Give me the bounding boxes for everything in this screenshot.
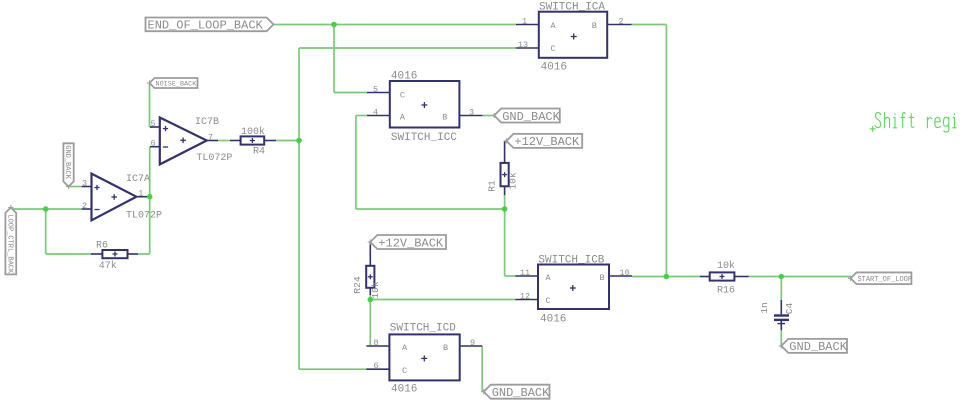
svg-text:B: B [592, 21, 597, 31]
svg-text:4016: 4016 [391, 384, 417, 396]
svg-text:1n: 1n [759, 302, 770, 313]
svg-text:A: A [402, 343, 408, 353]
svg-text:LOOP_CTRL_BACK: LOOP_CTRL_BACK [5, 214, 13, 274]
svg-text:9: 9 [470, 338, 475, 348]
svg-text:+12V_BACK: +12V_BACK [514, 135, 580, 149]
svg-text:C: C [402, 366, 407, 376]
svg-text:SWITCH_ICB: SWITCH_ICB [538, 255, 604, 267]
svg-text:4016: 4016 [541, 62, 567, 74]
svg-text:3: 3 [82, 178, 87, 188]
svg-text:10: 10 [619, 268, 629, 278]
svg-text:4016: 4016 [540, 314, 566, 326]
svg-text:4: 4 [373, 107, 378, 117]
svg-text:C: C [551, 44, 556, 54]
svg-text:R6: R6 [96, 241, 108, 252]
svg-text:TL072P: TL072P [126, 211, 162, 222]
svg-text:B: B [442, 113, 447, 123]
svg-text:B: B [443, 343, 448, 353]
svg-text:IC7B: IC7B [195, 117, 219, 128]
svg-text:10k: 10k [717, 260, 735, 272]
svg-text:C: C [400, 91, 405, 101]
svg-text:4016: 4016 [391, 70, 417, 82]
svg-text:SWITCH_ICC: SWITCH_ICC [391, 132, 457, 144]
svg-text:C: C [546, 296, 551, 306]
svg-text:+12V_BACK: +12V_BACK [378, 236, 444, 250]
svg-text:10k: 10k [370, 281, 381, 298]
svg-text:8: 8 [373, 338, 378, 348]
svg-text:TL072P: TL072P [196, 153, 232, 164]
svg-text:11: 11 [520, 268, 530, 278]
svg-text:A: A [551, 21, 557, 31]
svg-text:2: 2 [82, 201, 87, 211]
svg-text:SWITCH_ICA: SWITCH_ICA [539, 2, 605, 14]
svg-text:10k: 10k [508, 172, 519, 189]
svg-text:A: A [546, 273, 552, 283]
svg-text:A: A [400, 113, 406, 123]
svg-text:C4: C4 [784, 303, 795, 315]
svg-text:NOISE_BACK: NOISE_BACK [156, 80, 198, 88]
svg-text:GND_BACK: GND_BACK [502, 110, 560, 124]
svg-text:GND_BACK: GND_BACK [492, 386, 550, 400]
svg-text:GND_BACK: GND_BACK [789, 340, 847, 354]
svg-text:13: 13 [518, 40, 528, 50]
svg-text:6: 6 [150, 139, 155, 149]
svg-text:12: 12 [520, 291, 530, 301]
svg-text:GND_BACK: GND_BACK [63, 145, 71, 179]
svg-text:6: 6 [373, 361, 378, 371]
svg-text:2: 2 [618, 16, 623, 26]
svg-text:1: 1 [522, 16, 527, 26]
svg-text:R4: R4 [253, 147, 265, 158]
svg-text:R24: R24 [352, 276, 363, 293]
svg-text:5: 5 [373, 84, 378, 94]
svg-text:IC7A: IC7A [126, 174, 150, 185]
svg-text:R16: R16 [717, 286, 735, 297]
svg-text:R1: R1 [487, 180, 498, 192]
svg-text:100k: 100k [241, 126, 265, 138]
svg-text:7: 7 [208, 132, 213, 142]
svg-text:3: 3 [469, 107, 474, 117]
svg-text:1: 1 [138, 189, 143, 199]
svg-text:END_OF_LOOP_BACK: END_OF_LOOP_BACK [148, 19, 264, 33]
svg-text:B: B [600, 273, 605, 283]
svg-text:SWITCH_ICD: SWITCH_ICD [390, 323, 456, 335]
svg-text:47k: 47k [99, 260, 117, 272]
svg-text:START_OF_LOOP: START_OF_LOOP [857, 276, 912, 284]
svg-text:5: 5 [150, 119, 155, 129]
